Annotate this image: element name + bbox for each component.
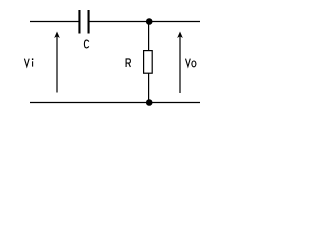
capacitor C1 right plate [88, 10, 90, 34]
wire node A to resistor [148, 22, 150, 51]
wire top-left (input to capacitor) [30, 21, 79, 23]
label R [126, 59, 130, 67]
label Vi [24, 59, 32, 67]
wire resistor to bottom node [148, 73, 150, 102]
label C [84, 40, 88, 48]
Vi arrow shaft [56, 36, 58, 93]
capacitor C1 left plate [78, 10, 80, 34]
label Vo [186, 59, 196, 67]
wire capacitor to top node [90, 21, 201, 23]
wire bottom rail [30, 102, 200, 104]
Vo arrowhead [177, 32, 183, 39]
resistor R1 body [144, 51, 153, 74]
Vo arrow shaft [179, 36, 181, 93]
Vi arrowhead [54, 32, 60, 39]
node B junction dot (bottom) [146, 99, 153, 106]
node A junction dot (top) [146, 18, 153, 25]
